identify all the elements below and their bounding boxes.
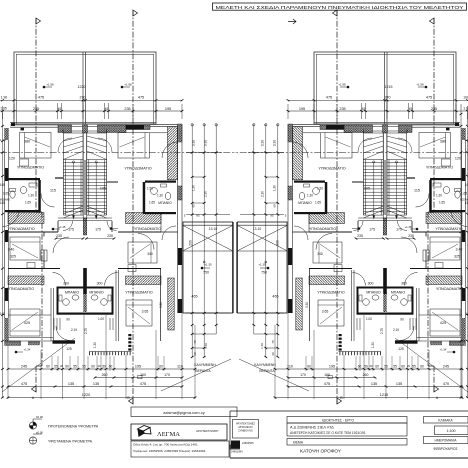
svg-text:60: 60 — [358, 365, 362, 369]
svg-text:235: 235 — [357, 234, 363, 238]
svg-text:55: 55 — [73, 365, 77, 369]
date box — [424, 437, 468, 444]
svg-text:425: 425 — [440, 321, 446, 325]
svg-text:1.50: 1.50 — [147, 187, 153, 191]
svg-text:170: 170 — [164, 373, 170, 377]
svg-text:125: 125 — [66, 347, 72, 351]
svg-text:2.19: 2.19 — [71, 328, 77, 332]
svg-text:ΥΠΝΟΔΩΜΑΤΙΟ: ΥΠΝΟΔΩΜΑΤΙΟ — [124, 167, 151, 171]
svg-text:+1.35: +1.35 — [258, 262, 266, 266]
svg-text:235: 235 — [339, 107, 345, 111]
svg-text:300: 300 — [368, 282, 374, 286]
svg-text:45: 45 — [105, 107, 109, 111]
svg-text:160: 160 — [140, 373, 146, 377]
svg-text:ΗΜΕΡΟΜΗΝΙΑ: ΗΜΕΡΟΜΗΝΙΑ — [435, 439, 458, 443]
svg-text:24661994: 24661994 — [231, 450, 243, 454]
svg-text:ΑΡΧΙΤΕΚΤΟΝΙΚΗ: ΑΡΧΙΤΕΚΤΟΝΙΚΗ — [195, 429, 219, 433]
svg-text:135: 135 — [68, 382, 74, 386]
svg-text:+1.98: +1.98 — [124, 83, 132, 87]
svg-text:ΥΠΝΟΔΩΜΑΤΙΟ: ΥΠΝΟΔΩΜΑΤΙΟ — [7, 227, 34, 231]
svg-text:ΑΝΕΓΕΡΣΗ ΚΑΤΟΙΚΙΕΣ ΣΕ Ο ΚΛΤΕ: ΑΝΕΓΕΡΣΗ ΚΑΤΟΙΚΙΕΣ ΣΕ Ο ΚΛΤΕ ΤΕΜ 1921/19… — [290, 431, 366, 435]
svg-text:60: 60 — [307, 365, 311, 369]
svg-text:1.95: 1.95 — [463, 107, 468, 111]
svg-text:ΥΠΝΟΔΩΜΑΤΙΟ: ΥΠΝΟΔΩΜΑΤΙΟ — [309, 227, 336, 231]
svg-text:115: 115 — [50, 189, 56, 193]
svg-text:2.19: 2.19 — [393, 328, 399, 332]
svg-text:45: 45 — [409, 107, 413, 111]
svg-text:1.30: 1.30 — [273, 185, 277, 191]
svg-text:235: 235 — [124, 107, 130, 111]
svg-text:195: 195 — [329, 365, 335, 369]
svg-text:110: 110 — [287, 365, 293, 369]
svg-text:475: 475 — [326, 96, 332, 100]
svg-text:1.95: 1.95 — [0, 107, 7, 111]
svg-text:120: 120 — [9, 157, 15, 161]
svg-text:45: 45 — [362, 107, 366, 111]
svg-text:ΠΡΟΤΕΙΝΟΜΕΝΑ ΥΨΟΜΕΤΡΑ: ΠΡΟΤΕΙΝΟΜΕΝΑ ΥΨΟΜΕΤΡΑ — [48, 425, 99, 429]
svg-text:1.10: 1.10 — [464, 138, 468, 142]
svg-text:70: 70 — [271, 340, 275, 344]
svg-text:175: 175 — [95, 228, 101, 232]
svg-text:55: 55 — [393, 365, 397, 369]
svg-text:1.00: 1.00 — [366, 317, 372, 321]
svg-text:60: 60 — [273, 204, 277, 208]
svg-text:3.30: 3.30 — [204, 140, 208, 147]
copyright header — [213, 3, 467, 10]
address box — [131, 441, 229, 457]
svg-text:85: 85 — [196, 214, 200, 218]
svg-text:ΥΠΝΟΔΩΜΑΤΙΟ: ΥΠΝΟΔΩΜΑΤΙΟ — [317, 291, 344, 295]
svg-text:±0.00: ±0.00 — [36, 431, 43, 435]
svg-text:160: 160 — [324, 373, 330, 377]
svg-text:60: 60 — [375, 365, 379, 369]
svg-text:3.30: 3.30 — [192, 140, 196, 147]
svg-text:ΙΔΙΟΚΤΗΤΕΣ - ΕΡΓΟ: ΙΔΙΟΚΤΗΤΕΣ - ΕΡΓΟ — [322, 419, 354, 423]
svg-text:ΥΠΝΟΔΩΜΑΤΙΟ: ΥΠΝΟΔΩΜΑΤΙΟ — [17, 166, 44, 170]
svg-text:235: 235 — [408, 234, 414, 238]
svg-text:ΥΠΝΟΔΩΜΑΤΙΟ: ΥΠΝΟΔΩΜΑΤΙΟ — [125, 291, 152, 295]
svg-text:175: 175 — [396, 228, 402, 232]
title block stamp box — [233, 420, 259, 439]
svg-text:1.30: 1.30 — [371, 342, 375, 348]
svg-text:1.65: 1.65 — [461, 192, 467, 196]
svg-text:135: 135 — [396, 382, 402, 386]
svg-text:380: 380 — [24, 140, 30, 144]
svg-text:110: 110 — [177, 365, 183, 369]
svg-text:ΜΠΑΝΙΟ: ΜΠΑΝΙΟ — [391, 291, 406, 295]
svg-text:2.30: 2.30 — [261, 191, 265, 197]
svg-text:140: 140 — [0, 312, 5, 316]
svg-text:1.30: 1.30 — [307, 194, 313, 198]
svg-text:325: 325 — [454, 255, 460, 259]
svg-text:60: 60 — [91, 365, 95, 369]
svg-text:1.65: 1.65 — [439, 201, 445, 205]
svg-text:475: 475 — [426, 96, 432, 100]
svg-text:ΜΩΣΑΙΚΟ: ΜΩΣΑΙΚΟ — [0, 199, 10, 202]
title owners box — [287, 417, 407, 424]
svg-text:ΒΕΡΑΝΤΑ: ΒΕΡΑΝΤΑ — [259, 369, 275, 373]
svg-text:200: 200 — [276, 240, 280, 246]
svg-text:475: 475 — [138, 96, 144, 100]
svg-text:425: 425 — [24, 321, 30, 325]
svg-text:2.30: 2.30 — [204, 191, 208, 197]
svg-text:24652505: 24652505 — [242, 441, 254, 445]
svg-text:60: 60 — [420, 365, 424, 369]
svg-text:235: 235 — [56, 234, 62, 238]
svg-text:1215: 1215 — [385, 85, 393, 89]
svg-text:475: 475 — [21, 382, 27, 386]
svg-text:20: 20 — [60, 364, 64, 368]
svg-text:+1.35: +1.35 — [59, 225, 66, 229]
svg-text:175: 175 — [369, 228, 375, 232]
svg-text:ΥΠΝΟΔΩΜΑΤΙΟ: ΥΠΝΟΔΩΜΑΤΙΟ — [426, 166, 453, 170]
svg-text:1.50: 1.50 — [317, 187, 323, 191]
svg-text:1215: 1215 — [380, 393, 388, 397]
svg-text:190: 190 — [463, 96, 468, 100]
svg-text:20: 20 — [369, 364, 373, 368]
svg-text:3.65: 3.65 — [142, 310, 149, 314]
svg-text:Τηλέφωνα: 24652505, 24653399: Τηλέφωνα: 24652505, 24653399 Τέλεφαξ: 24… — [133, 449, 206, 453]
svg-text:2.75: 2.75 — [84, 328, 88, 334]
svg-text:60: 60 — [46, 365, 50, 369]
svg-text:ΥΠΝΟΔΩΜΑΤΙΟ: ΥΠΝΟΔΩΜΑΤΙΟ — [7, 287, 34, 291]
svg-text:195: 195 — [135, 365, 141, 369]
svg-text:300: 300 — [97, 282, 103, 286]
scale box — [424, 417, 468, 424]
svg-text:475: 475 — [140, 382, 146, 386]
svg-text:ΥΠΝΟΔΩΜΑΤΙΟ: ΥΠΝΟΔΩΜΑΤΙΟ — [134, 227, 161, 231]
flag marker top mid — [288, 19, 296, 24]
svg-text:ΣΥΜΒΟΥΛΟΙ: ΣΥΜΒΟΥΛΟΙ — [238, 430, 253, 433]
svg-text:60: 60 — [401, 365, 405, 369]
svg-text:1220: 1220 — [82, 393, 90, 397]
svg-text:105: 105 — [364, 187, 370, 191]
svg-text:1.30: 1.30 — [28, 194, 34, 198]
svg-text:ΛΕΓΜΑ: ΛΕΓΜΑ — [157, 431, 180, 438]
svg-text:135: 135 — [93, 382, 99, 386]
svg-text:3.30: 3.30 — [305, 302, 309, 308]
svg-text:90: 90 — [400, 318, 404, 322]
svg-text:2.75: 2.75 — [380, 328, 384, 334]
svg-text:ΦΕΒΡΟΥΑΡΙΟΣ: ΦΕΒΡΟΥΑΡΙΟΣ — [433, 447, 457, 451]
svg-text:3.40: 3.40 — [456, 248, 463, 252]
legend proposed levels — [29, 422, 36, 429]
svg-text:465: 465 — [191, 295, 197, 299]
svg-text:ΚΑΛΥΜΜΕΝΗ: ΚΑΛΥΜΜΕΝΗ — [254, 363, 276, 367]
svg-text:3.30: 3.30 — [273, 140, 277, 147]
legend existing levels — [29, 437, 36, 444]
title block rule top — [230, 410, 468, 412]
svg-text:60: 60 — [109, 365, 113, 369]
svg-text:105: 105 — [100, 187, 106, 191]
svg-text:1.00: 1.00 — [98, 317, 104, 321]
svg-text:3.30: 3.30 — [159, 302, 163, 308]
svg-text:55: 55 — [412, 365, 416, 369]
svg-text:55: 55 — [384, 365, 388, 369]
svg-text:1.30: 1.30 — [436, 194, 442, 198]
svg-text:60: 60 — [193, 352, 197, 356]
svg-text:235: 235 — [431, 107, 437, 111]
svg-text:+1.35: +1.35 — [405, 225, 412, 229]
svg-text:1.30: 1.30 — [157, 194, 163, 198]
svg-text:165: 165 — [0, 201, 5, 205]
svg-text:ΥΠΝΟΔΩΜΑΤΙΟ: ΥΠΝΟΔΩΜΑΤΙΟ — [435, 227, 462, 231]
svg-text:340: 340 — [147, 252, 153, 256]
svg-text:3.65: 3.65 — [322, 310, 329, 314]
svg-text:85: 85 — [270, 214, 274, 218]
svg-text:200: 200 — [189, 240, 193, 246]
svg-text:ΜΠΑΝΙΟ: ΜΠΑΝΙΟ — [366, 291, 381, 295]
svg-text:3.30: 3.30 — [261, 140, 265, 147]
svg-text:750: 750 — [261, 271, 267, 275]
svg-text:170: 170 — [300, 373, 306, 377]
svg-text:1:100: 1:100 — [447, 429, 456, 433]
svg-text:175: 175 — [68, 228, 74, 232]
svg-text:20: 20 — [97, 364, 101, 368]
svg-text:ΜΠΑΝΙΟ: ΜΠΑΝΙΟ — [89, 291, 104, 295]
svg-text:±0.00: ±0.00 — [36, 415, 43, 419]
svg-text:+1.98: +1.98 — [416, 83, 424, 87]
svg-text:ΜΠΑΝΙΟ: ΜΠΑΝΙΟ — [65, 291, 80, 295]
scale value box — [435, 426, 468, 435]
svg-text:165: 165 — [0, 183, 5, 187]
svg-text:20: 20 — [407, 364, 411, 368]
svg-text:260: 260 — [102, 373, 108, 377]
svg-text:70: 70 — [193, 340, 197, 344]
svg-text:245: 245 — [21, 365, 27, 369]
svg-text:55: 55 — [82, 365, 86, 369]
svg-text:465: 465 — [272, 295, 278, 299]
svg-text:325: 325 — [10, 255, 16, 259]
title owners value box — [287, 423, 407, 436]
svg-text:1220: 1220 — [78, 85, 86, 89]
svg-text:90: 90 — [66, 318, 70, 322]
svg-text:60: 60 — [65, 365, 69, 369]
svg-text:195: 195 — [165, 107, 171, 111]
svg-text:60: 60 — [159, 365, 163, 369]
svg-text:235: 235 — [33, 107, 39, 111]
svg-text:1.65: 1.65 — [25, 201, 31, 205]
svg-text:270: 270 — [385, 96, 391, 100]
svg-text:1.30: 1.30 — [260, 343, 264, 349]
svg-text:+1.98: +1.98 — [338, 83, 346, 87]
svg-text:3.40: 3.40 — [8, 248, 15, 252]
svg-text:475: 475 — [324, 382, 330, 386]
svg-text:50: 50 — [102, 365, 106, 369]
svg-text:1.65: 1.65 — [3, 192, 9, 196]
svg-text:260: 260 — [363, 373, 369, 377]
svg-text:1.65: 1.65 — [315, 201, 321, 205]
email box — [131, 407, 237, 417]
svg-text:750: 750 — [203, 271, 209, 275]
svg-text:ΚΑΛΥΜΜΕΝΗ: ΚΑΛΥΜΜΕΝΗ — [194, 363, 216, 367]
logo box — [131, 424, 227, 440]
svg-text:ΥΠΝΟΔΩΜΑΤΙΟ: ΥΠΝΟΔΩΜΑΤΙΟ — [318, 167, 345, 171]
svg-text:475: 475 — [38, 96, 44, 100]
svg-text:195: 195 — [299, 107, 305, 111]
svg-text:120: 120 — [455, 157, 461, 161]
stamp logo — [231, 441, 240, 449]
svg-text:235: 235 — [107, 234, 113, 238]
svg-text:300: 300 — [401, 282, 407, 286]
svg-text:60: 60 — [192, 204, 196, 208]
svg-text:axisma@pigma.com.cy: axisma@pigma.com.cy — [163, 410, 204, 415]
svg-text:300: 300 — [63, 282, 69, 286]
svg-text:55: 55 — [54, 365, 58, 369]
svg-text:Οδός Κιλάς 4, 1ος όρ. 700 Λεύκ: Οδός Κιλάς 4, 1ος όρ. 700 Λεύκωσα ΚΩΔ.14… — [133, 442, 198, 446]
svg-text:13.10: 13.10 — [253, 227, 262, 231]
svg-text:125: 125 — [398, 347, 404, 351]
svg-text:ΘΕΜΑ: ΘΕΜΑ — [293, 441, 304, 445]
svg-text:50: 50 — [364, 365, 368, 369]
svg-text:ΜΠΑΝΙΟ: ΜΠΑΝΙΟ — [158, 201, 172, 205]
svg-text:Α.Δ ΖΩΜΕΝΗΣ ΣΙΕΛ ΛΤΔ: Α.Δ ΖΩΜΕΝΗΣ ΣΙΕΛ ΛΤΔ — [290, 425, 334, 430]
svg-text:ΚΛΙΜΑΚΑ: ΚΛΙΜΑΚΑ — [438, 419, 453, 423]
svg-text:+1.35: +1.35 — [204, 262, 212, 266]
svg-text:1.30: 1.30 — [93, 342, 97, 348]
svg-text:13.10: 13.10 — [209, 227, 218, 231]
title theme box — [287, 439, 407, 446]
svg-text:ΚΑΤΟΨΗ ΟΡΟΦΟΥ: ΚΑΤΟΨΗ ΟΡΟΦΟΥ — [300, 449, 341, 454]
svg-text:470: 470 — [443, 382, 449, 386]
svg-text:245: 245 — [443, 365, 449, 369]
svg-text:ΥΦΙΣΤΑΜΕΝΑ ΥΨΟΜΕΤΡΑ: ΥΦΙΣΤΑΜΕΝΑ ΥΨΟΜΕΤΡΑ — [48, 440, 93, 444]
svg-text:45: 45 — [58, 107, 62, 111]
svg-text:ΥΠΝΟΔΩΜΑΤΙΟ: ΥΠΝΟΔΩΜΑΤΙΟ — [436, 287, 463, 291]
svg-text:60: 60 — [271, 352, 275, 356]
svg-text:380: 380 — [440, 140, 446, 144]
svg-text:+1.98: +1.98 — [46, 83, 54, 87]
svg-text:1.30: 1.30 — [204, 343, 208, 349]
svg-text:ΒΕΡΑΝΤΑ: ΒΕΡΑΝΤΑ — [195, 369, 211, 373]
svg-text:115: 115 — [414, 189, 420, 193]
svg-text:1.65: 1.65 — [149, 201, 155, 205]
svg-text:+1.34: +1.34 — [24, 348, 31, 352]
svg-text:340: 340 — [317, 252, 323, 256]
svg-text:270: 270 — [80, 96, 86, 100]
svg-text:1.90: 1.90 — [1, 96, 8, 100]
svg-text:135: 135 — [371, 382, 377, 386]
svg-text:ΜΕΛΕΤΗ ΚΑΙ ΣΧΕΔΙΑ ΠΑΡΑΜΕΝΟΥΝ Π: ΜΕΛΕΤΗ ΚΑΙ ΣΧΕΔΙΑ ΠΑΡΑΜΕΝΟΥΝ ΠΝΕΥΜΑΤΙΚΗ … — [216, 5, 464, 10]
svg-text:1.30: 1.30 — [192, 185, 196, 191]
svg-text:+1.34: +1.34 — [440, 348, 447, 352]
svg-text:1.10: 1.10 — [0, 138, 6, 142]
svg-text:ΜΠΑΝΙΟ: ΜΠΑΝΙΟ — [298, 201, 312, 205]
right margin dim line — [460, 104, 462, 398]
